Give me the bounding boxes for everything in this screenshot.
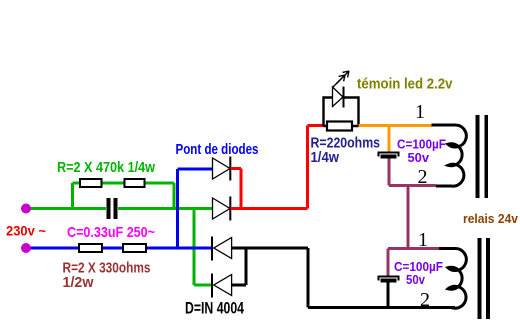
- svg-text:Pont de diodes: Pont de diodes: [176, 141, 259, 158]
- relay core 1: [476, 115, 489, 198]
- relay coil 2: [439, 249, 466, 309]
- svg-text:50v: 50v: [408, 150, 430, 165]
- resistor R 470k #2: [125, 179, 145, 187]
- svg-text:témoin led 2.2v: témoin led 2.2v: [357, 76, 453, 93]
- svg-text:1/2w: 1/2w: [63, 274, 94, 291]
- wire: green main live wire: [26, 183, 212, 285]
- svg-text:1: 1: [418, 229, 428, 251]
- capacitor C1=100uF 50v (polarized): [379, 153, 399, 159]
- svg-text:relais 24v: relais 24v: [463, 211, 519, 226]
- capacitor C2=100uF 50v (polarized): [379, 277, 399, 308]
- node: mains terminal bottom (dot): [21, 243, 31, 253]
- svg-text:2: 2: [418, 166, 428, 188]
- svg-text:230v ~: 230v ~: [6, 223, 46, 239]
- svg-text:2: 2: [420, 289, 430, 311]
- resistor R 330ohms #2: [123, 244, 146, 252]
- resistor R 470k #1: [80, 179, 102, 187]
- svg-text:1/4w: 1/4w: [311, 149, 340, 166]
- relay coil 1: [432, 125, 467, 186]
- svg-text:D=IN 4004: D=IN 4004: [185, 299, 244, 318]
- relay core 2: [478, 238, 491, 319]
- wire: blue neutral wire: [26, 169, 212, 248]
- diode D3 (cathode left): [212, 237, 232, 261]
- wire: orange wire to relay 1: [359, 126, 432, 153]
- diode D4 (cathode left): [212, 274, 232, 298]
- resistor R=220ohms (in LED block): [327, 122, 352, 131]
- capacitor C=0.33uF 250~: [107, 198, 118, 219]
- node: mains terminal top (dot): [21, 204, 31, 214]
- diode D1 (top, anode left): [213, 157, 231, 181]
- svg-text:1: 1: [415, 101, 425, 123]
- svg-text:50v: 50v: [406, 272, 426, 287]
- LED D5 (témoin): [333, 87, 344, 108]
- LED light arrows: [333, 71, 350, 88]
- svg-text:R=2 X 470k 1/4w: R=2 X 470k 1/4w: [57, 159, 155, 176]
- wire: black negative output of bridge: [232, 248, 455, 308]
- svg-text:C=0.33uF 250~: C=0.33uF 250~: [67, 224, 155, 241]
- LED parallel block frame: [324, 98, 359, 127]
- resistor R 330ohms #1: [79, 244, 102, 252]
- diode D2 (anode left): [213, 197, 231, 221]
- wire: red positive output of bridge: [230, 126, 323, 209]
- wire: purple link relay1 pin2: [388, 159, 439, 277]
